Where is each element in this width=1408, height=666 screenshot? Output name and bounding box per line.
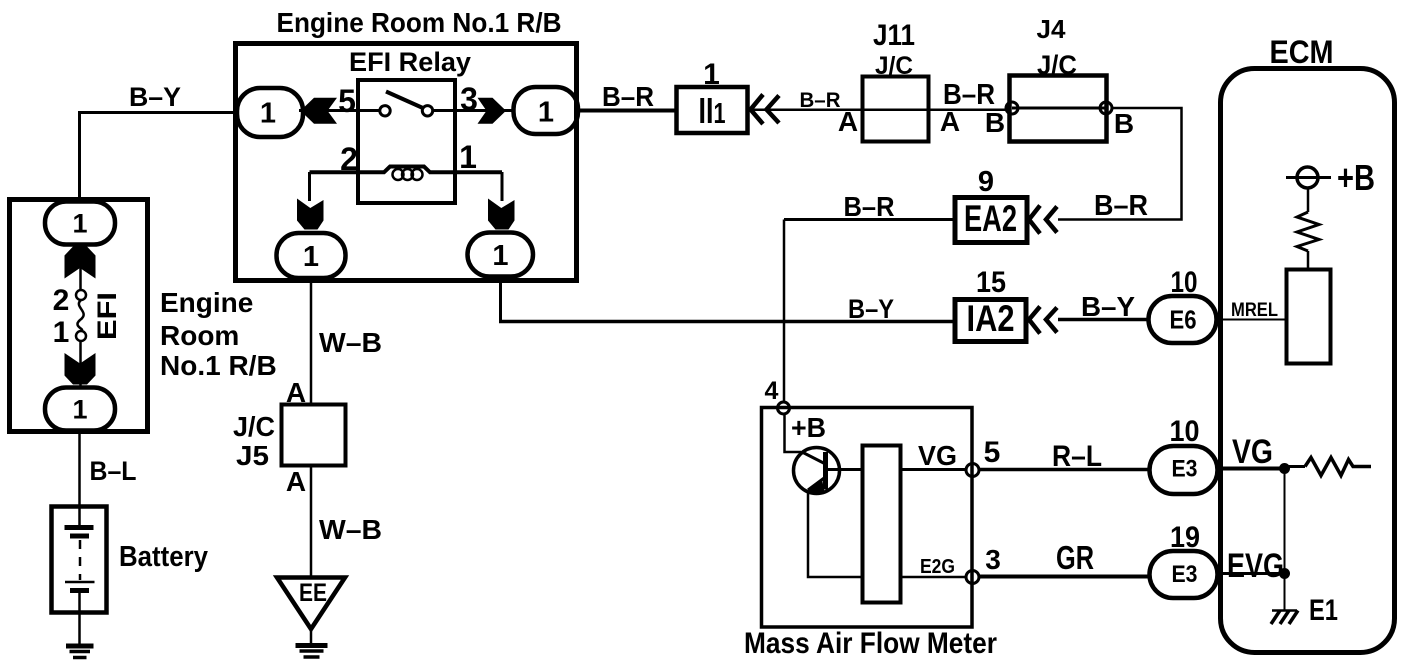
wire base to heater: [827, 468, 862, 471]
svg-text:1: 1: [303, 241, 319, 273]
heater element block: [863, 446, 901, 603]
arrow down to bottom oval: [65, 353, 96, 385]
svg-text:10: 10: [1171, 266, 1198, 299]
svg-text:Battery: Battery: [119, 541, 208, 573]
resistor (VG load): [1305, 458, 1371, 476]
svg-text:3: 3: [460, 81, 478, 117]
battery BAT1 box: [52, 507, 107, 613]
wire EVG inside ECM: [1217, 572, 1289, 575]
junction dot EVG: [1279, 568, 1290, 579]
transistor Q1 circle: [794, 448, 840, 494]
battery plate long bottom: [65, 581, 95, 584]
wire emitter down: [808, 491, 862, 577]
svg-text:E3: E3: [1172, 561, 1198, 588]
Mass Air Flow Meter box: [762, 408, 973, 628]
connector oval 1 (EFI bottom): [45, 388, 115, 431]
svg-text:E3: E3: [1172, 456, 1198, 483]
svg-text:EE: EE: [299, 579, 327, 607]
svg-text:5: 5: [984, 436, 1001, 469]
wire relay bottom-right drop: [499, 276, 502, 322]
svg-text:E2G: E2G: [920, 556, 955, 578]
junction J4 box: [1010, 76, 1107, 142]
ECM box: [1221, 69, 1395, 653]
svg-text:J11: J11: [873, 19, 915, 52]
connector oval 1 (relay right): [514, 87, 579, 134]
arrow down pin1: [488, 199, 515, 230]
arrow down pin2: [297, 199, 324, 230]
svg-text:W–B: W–B: [319, 327, 382, 358]
junction J5 box: [282, 405, 346, 466]
svg-text:10: 10: [1170, 415, 1200, 448]
wire through J11: [862, 109, 1007, 112]
svg-text:EFI Relay: EFI Relay: [349, 47, 471, 77]
svg-text:B–R: B–R: [844, 191, 895, 222]
chevrons after EA2: [1029, 206, 1040, 234]
svg-text:B: B: [1114, 108, 1134, 139]
fuse EFI terminal 2 circle: [76, 290, 86, 300]
chassis ground E1: [1272, 609, 1297, 612]
switch blade: [386, 92, 424, 109]
wire resistor to block: [1307, 251, 1310, 269]
wire vertical to node 4: [783, 220, 786, 404]
resistor (MREL pullup): [1297, 212, 1319, 251]
wire VG out: [901, 468, 967, 471]
svg-text:1: 1: [703, 58, 720, 91]
wire W-B upper: [310, 277, 313, 404]
svg-text:GR: GR: [1056, 539, 1094, 576]
fuse EFI terminal 1 circle: [76, 331, 86, 341]
svg-text:B–Y: B–Y: [848, 294, 894, 324]
wire VG junction down: [1284, 469, 1286, 574]
connector oval E6: [1149, 296, 1217, 343]
arrow at pin5 (left): [301, 98, 338, 124]
transistor collector line: [803, 453, 826, 465]
svg-text:B–R: B–R: [1094, 190, 1148, 222]
junction J11 box: [863, 77, 929, 142]
power +B symbol: [1297, 167, 1318, 188]
svg-text:9: 9: [978, 166, 994, 198]
svg-text:EA2: EA2: [964, 198, 1017, 239]
wire fuse bottom: [79, 341, 82, 386]
connector oval 1 (relay left): [237, 88, 303, 137]
wire MREL: [1216, 319, 1286, 321]
wire B-Y horizontal top-left: [78, 111, 236, 114]
wire pin1 drop: [501, 172, 504, 201]
svg-text:1: 1: [538, 97, 554, 129]
svg-text:EVG: EVG: [1227, 547, 1284, 585]
svg-text:B: B: [985, 107, 1005, 138]
svg-text:B–Y: B–Y: [1081, 291, 1135, 322]
ground (EE): [296, 643, 328, 648]
connector oval E3 (pin10): [1150, 446, 1218, 494]
arrow at pin3 (right): [478, 98, 507, 124]
wire B-Y vertical left: [78, 113, 81, 203]
wire dot to resistor: [1285, 465, 1306, 468]
wire EE to ground: [310, 629, 313, 645]
svg-text:+B: +B: [1337, 157, 1375, 198]
svg-text:B–Y: B–Y: [129, 82, 181, 112]
transistor emitter line: [808, 477, 826, 490]
box Engine Room No.1 R/B (relay block): [236, 44, 577, 281]
svg-text:2: 2: [53, 284, 70, 317]
relay coil L1 loops: [393, 169, 404, 180]
wire R-L: [979, 468, 1150, 472]
svg-text:1: 1: [459, 139, 477, 175]
svg-text:1: 1: [72, 395, 87, 425]
svg-text:4: 4: [765, 377, 779, 405]
relay U1 inner box: [358, 80, 455, 203]
battery plate short bottom: [70, 588, 89, 593]
svg-text:J/C: J/C: [233, 411, 275, 442]
switch contact circle pin3: [422, 106, 432, 116]
box EFI fuse block (left): [10, 200, 148, 432]
svg-text:Room: Room: [160, 320, 239, 351]
node 4 circle: [778, 402, 790, 414]
MREL driver block: [1287, 270, 1331, 364]
fuse EFI element: [77, 300, 83, 331]
wire pin5: [299, 109, 380, 112]
battery internal wire bottom: [78, 592, 81, 613]
ground EE triangle: [277, 578, 345, 630]
wire pin3: [433, 109, 513, 112]
wire +B to resistor: [1307, 188, 1310, 212]
connector oval 1 (relay bottom-right): [468, 233, 534, 277]
connector EA2 box: [955, 198, 1027, 243]
svg-text:EFI: EFI: [92, 292, 122, 340]
transistor base bar: [823, 452, 828, 490]
svg-text:Engine Room No.1 R/B: Engine Room No.1 R/B: [277, 7, 562, 38]
svg-text:No.1 R/B: No.1 R/B: [160, 350, 277, 381]
svg-text:2: 2: [340, 141, 358, 177]
svg-text:B–R: B–R: [800, 89, 841, 112]
wire node4 to transistor: [785, 414, 802, 452]
J4 right terminal circle: [1100, 102, 1112, 114]
wire B-R relay to II1: [577, 109, 676, 113]
wire J4 to EA2 (right, down, left): [1058, 108, 1182, 220]
svg-text:+B: +B: [791, 412, 826, 443]
svg-text:1: 1: [492, 240, 508, 272]
svg-text:15: 15: [976, 266, 1006, 299]
svg-text:R–L: R–L: [1052, 440, 1102, 473]
svg-text:W–B: W–B: [319, 514, 382, 545]
svg-text:J4: J4: [1037, 14, 1066, 44]
wire VG inside ECM: [1217, 467, 1289, 471]
connector IA2 box: [955, 300, 1026, 342]
connector oval 1 (EFI top): [45, 202, 115, 245]
wire GR: [979, 575, 1150, 579]
wire W-B lower: [310, 466, 313, 577]
battery internal wire top: [78, 506, 81, 525]
svg-text:ECM: ECM: [1270, 34, 1334, 70]
wire EA2 left: [784, 218, 953, 221]
svg-text:Engine: Engine: [160, 287, 253, 318]
svg-text:VG: VG: [918, 440, 957, 471]
svg-text:MREL: MREL: [1231, 300, 1278, 321]
battery plate short top: [70, 534, 89, 539]
svg-text:J/C: J/C: [875, 52, 913, 80]
wire E2G out: [901, 576, 967, 579]
junction dot VG: [1279, 463, 1290, 474]
switch contact circle pin5: [380, 106, 390, 116]
wire II1 to J11: [752, 109, 862, 112]
connector II1 box: [677, 87, 748, 133]
svg-text:E1: E1: [1309, 594, 1338, 627]
svg-text:A: A: [286, 466, 306, 497]
pin 3 circle: [966, 571, 979, 584]
transistor emitter arrow: [806, 479, 825, 493]
svg-text:B–R: B–R: [602, 81, 654, 112]
svg-text:J/C: J/C: [1037, 50, 1077, 80]
arrow up to oval: [65, 247, 96, 279]
svg-text:E6: E6: [1170, 305, 1197, 335]
svg-text:IA2: IA2: [967, 298, 1015, 339]
connector oval 1 (relay bottom-left): [277, 233, 346, 278]
wire battery to ground: [78, 613, 81, 645]
wire EVG to ground: [1284, 574, 1286, 612]
wire B-L: [78, 430, 81, 506]
svg-text:J5: J5: [236, 440, 269, 471]
wire coil row: [310, 167, 503, 173]
wire through J4: [1012, 107, 1106, 110]
pin 5 circle: [966, 464, 979, 477]
svg-text:19: 19: [1170, 521, 1200, 554]
chevrons after II1: [751, 95, 764, 125]
svg-text:B–L: B–L: [90, 456, 137, 486]
wire B-Y long horizontal: [499, 320, 954, 324]
svg-text:1: 1: [53, 316, 70, 349]
connector oval E3 (pin19): [1150, 551, 1218, 598]
svg-text:Mass Air Flow Meter: Mass Air Flow Meter: [744, 627, 997, 660]
svg-text:VG: VG: [1232, 433, 1273, 471]
wire pin2 drop: [308, 172, 311, 201]
J4 left terminal circle: [1006, 102, 1018, 114]
chevrons after IA2: [1029, 307, 1040, 334]
wire IA2 to E6: [1058, 318, 1150, 322]
battery plate long top: [65, 525, 94, 530]
ground (battery): [66, 644, 94, 649]
battery dashed link: [79, 540, 82, 580]
svg-text:3: 3: [985, 544, 1001, 575]
svg-text:A: A: [838, 106, 858, 137]
wire fuse top: [79, 246, 82, 290]
svg-text:5: 5: [338, 83, 356, 119]
svg-text:1: 1: [72, 209, 87, 239]
svg-text:1: 1: [260, 98, 276, 130]
